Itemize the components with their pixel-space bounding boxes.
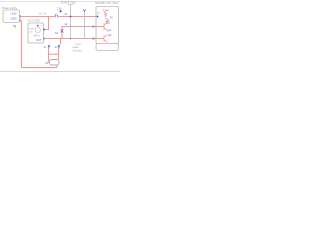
U1 oscillator circle xyxy=(35,27,40,32)
wire Q2 base xyxy=(94,38,105,40)
wire W1 main horizontal xyxy=(20,16,55,18)
wire node B down xyxy=(58,49,60,60)
wire grid drop to node B xyxy=(60,39,62,45)
switch S1 on vertical xyxy=(61,29,64,32)
svg-text:2.2k: 2.2k xyxy=(57,8,62,11)
svg-text:OUT: OUT xyxy=(36,38,42,42)
svg-text:NC 0 GB: NC 0 GB xyxy=(28,19,40,23)
oscillator box U1 xyxy=(28,23,44,43)
grid end marker top xyxy=(93,26,95,28)
wire horizontal link xyxy=(49,53,59,55)
resistor R2 vertical red xyxy=(104,11,106,17)
ground xyxy=(13,26,15,28)
diode D2 xyxy=(106,18,109,22)
svg-text:Switch ctrl box: Switch ctrl box xyxy=(95,1,118,5)
bottom canvas border line xyxy=(0,71,120,73)
junction diamond grid corner xyxy=(69,25,71,27)
svg-text:20 extra: 20 extra xyxy=(73,49,83,53)
wire W2 to bottom rail xyxy=(20,21,58,68)
switch control box U2 xyxy=(96,7,119,44)
svg-text:Extra fee: Extra fee xyxy=(61,1,76,5)
wire node A down xyxy=(49,49,50,62)
fuse F1 pill xyxy=(50,60,60,66)
node diamond U1 out2 xyxy=(43,37,45,39)
node flag B symbol xyxy=(58,45,60,49)
svg-text:+15V: +15V xyxy=(10,11,17,15)
wire riser from U1 output to W1 xyxy=(44,17,49,30)
top canvas border line xyxy=(0,1,120,3)
U1 lower gray mark xyxy=(34,34,40,37)
node flag A symbol xyxy=(48,45,50,49)
transistor Q1 xyxy=(104,21,108,32)
wire grid top rail xyxy=(62,27,94,39)
inline part contact marks xyxy=(55,15,57,18)
svg-text:S1: S1 xyxy=(55,31,59,35)
node diamond U1 out1 xyxy=(43,28,45,30)
wire grid bottom rail xyxy=(44,38,94,40)
svg-text:GND: GND xyxy=(11,17,17,21)
power supply box PS1 xyxy=(3,10,20,23)
lavender vertical probe V2 xyxy=(84,11,86,39)
transistor Q2 xyxy=(104,35,108,42)
svg-text:Case: Case xyxy=(73,45,80,49)
probe caret xyxy=(83,10,86,12)
wire W1 right segment xyxy=(58,16,104,18)
svg-text:5V: 5V xyxy=(110,17,113,20)
svg-text:Power supply: Power supply xyxy=(2,7,18,10)
svg-text:AC 50: AC 50 xyxy=(39,12,47,16)
gray vertical net V1 with T bar xyxy=(68,5,73,39)
relay case box xyxy=(96,44,119,51)
D1 symbol xyxy=(59,10,62,13)
node diamond W1 at U2 xyxy=(96,15,98,17)
node diamond pin1 xyxy=(19,15,21,17)
U1 blue tick xyxy=(37,25,39,27)
node diamond pin2 xyxy=(19,19,21,21)
svg-text:1 µm: 1 µm xyxy=(75,42,81,46)
junction diamond W1xV1 xyxy=(69,15,71,17)
wire Q1 base xyxy=(94,26,105,28)
grid end marker bottom xyxy=(93,38,95,40)
